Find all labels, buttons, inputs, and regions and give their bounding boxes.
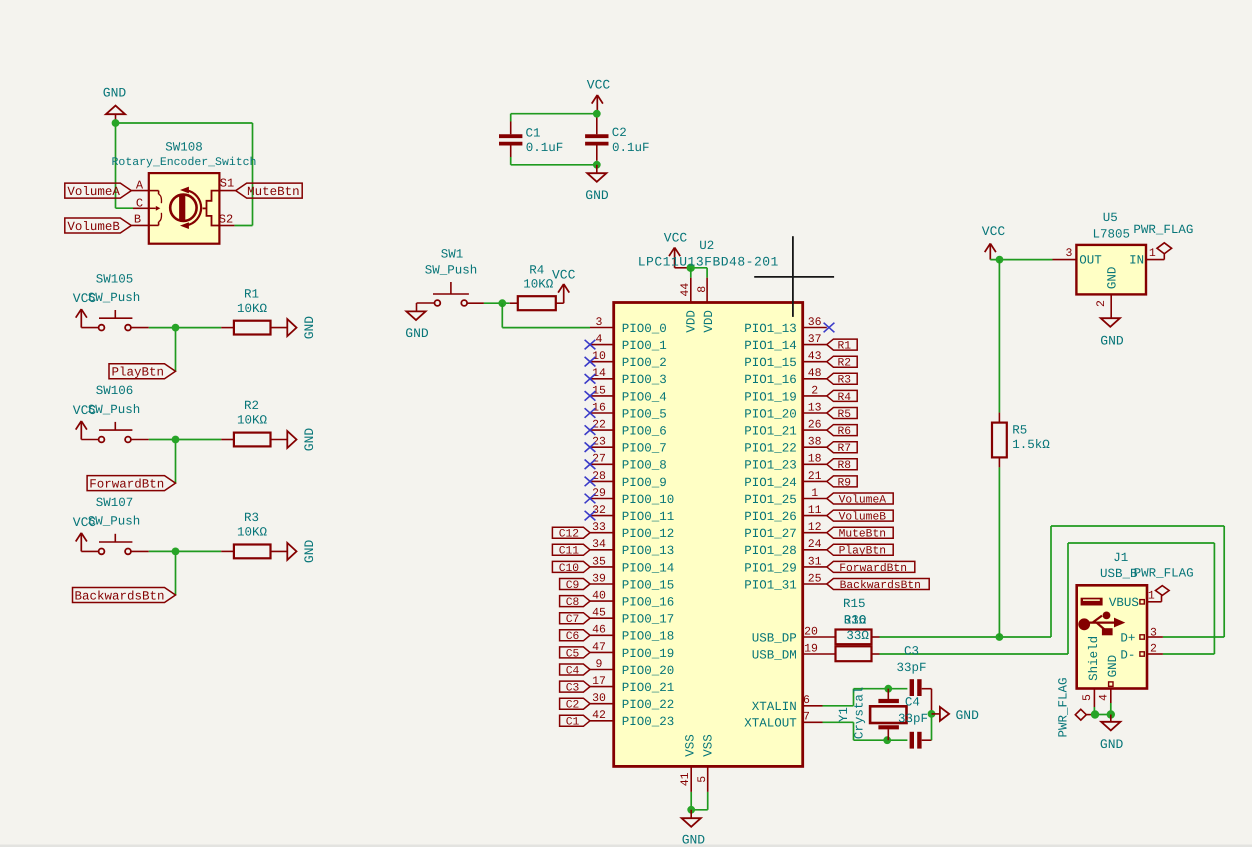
svg-text:U2: U2	[699, 239, 714, 253]
svg-text:PIO0_6: PIO0_6	[622, 425, 667, 439]
svg-text:C2: C2	[612, 126, 627, 140]
svg-text:44: 44	[679, 283, 692, 297]
svg-text:PIO1_29: PIO1_29	[744, 561, 797, 575]
svg-text:ForwardBtn: ForwardBtn	[89, 477, 164, 491]
svg-text:VCC: VCC	[552, 267, 576, 282]
svg-text:0.1uF: 0.1uF	[526, 141, 564, 155]
svg-text:C9: C9	[566, 580, 580, 592]
svg-text:10KΩ: 10KΩ	[237, 414, 268, 428]
svg-text:SW108: SW108	[165, 140, 203, 154]
svg-text:PIO1_13: PIO1_13	[744, 322, 797, 336]
svg-text:R5: R5	[1012, 423, 1027, 437]
svg-text:10: 10	[592, 350, 606, 363]
svg-text:10KΩ: 10KΩ	[237, 526, 268, 540]
svg-text:B: B	[134, 213, 141, 227]
svg-text:28: 28	[592, 470, 606, 483]
svg-text:VDD: VDD	[685, 310, 699, 333]
svg-text:PIO0_8: PIO0_8	[622, 459, 667, 473]
svg-text:ForwardBtn: ForwardBtn	[839, 562, 907, 575]
svg-text:R15: R15	[843, 597, 866, 611]
svg-text:31: 31	[808, 555, 822, 568]
svg-text:VSS: VSS	[701, 734, 715, 757]
svg-text:15: 15	[592, 384, 606, 397]
svg-text:Rotary_Encoder_Switch: Rotary_Encoder_Switch	[112, 156, 257, 169]
svg-text:C1: C1	[566, 717, 580, 729]
svg-text:USB_B: USB_B	[1100, 567, 1138, 581]
svg-text:R6: R6	[838, 426, 852, 438]
svg-text:R7: R7	[838, 443, 852, 455]
svg-text:USB_DP: USB_DP	[752, 631, 797, 645]
svg-text:PIO1_20: PIO1_20	[744, 407, 797, 421]
svg-text:GND: GND	[1106, 655, 1120, 678]
svg-text:PWR_FLAG: PWR_FLAG	[1056, 677, 1070, 737]
svg-text:39: 39	[592, 572, 606, 585]
svg-text:PIO1_27: PIO1_27	[744, 527, 797, 541]
svg-text:GND: GND	[302, 428, 317, 452]
svg-text:4: 4	[1098, 694, 1111, 701]
svg-text:GND: GND	[1106, 267, 1120, 290]
svg-text:PIO0_16: PIO0_16	[622, 596, 675, 610]
svg-text:11: 11	[808, 504, 822, 517]
svg-text:36: 36	[808, 316, 822, 329]
svg-text:PIO1_23: PIO1_23	[744, 459, 797, 473]
svg-text:C: C	[136, 196, 143, 210]
svg-text:PIO0_21: PIO0_21	[622, 681, 675, 695]
svg-text:PIO1_16: PIO1_16	[744, 373, 797, 387]
svg-text:VCC: VCC	[587, 78, 611, 93]
svg-text:35: 35	[592, 555, 606, 568]
svg-text:1.5kΩ: 1.5kΩ	[1012, 438, 1050, 452]
svg-text:0.1uF: 0.1uF	[612, 141, 650, 155]
svg-text:Shield: Shield	[1087, 636, 1101, 681]
svg-text:4: 4	[596, 333, 603, 346]
svg-text:20: 20	[804, 625, 818, 638]
svg-text:XTALOUT: XTALOUT	[744, 717, 797, 731]
svg-text:1: 1	[1148, 590, 1155, 603]
svg-text:SW_Push: SW_Push	[88, 515, 141, 529]
svg-text:32: 32	[592, 504, 606, 517]
svg-text:PIO0_15: PIO0_15	[622, 578, 675, 592]
svg-text:27: 27	[592, 453, 606, 466]
svg-text:6: 6	[803, 694, 810, 707]
svg-text:VCC: VCC	[664, 231, 688, 246]
svg-text:C12: C12	[559, 529, 579, 541]
svg-text:13: 13	[808, 401, 822, 414]
svg-text:PWR_FLAG: PWR_FLAG	[1134, 567, 1194, 581]
svg-text:R16: R16	[844, 613, 867, 627]
svg-text:42: 42	[592, 709, 606, 722]
svg-text:PIO0_17: PIO0_17	[622, 613, 675, 627]
svg-text:30: 30	[592, 692, 606, 705]
svg-text:VCC: VCC	[982, 224, 1006, 239]
svg-text:R3: R3	[838, 375, 852, 387]
svg-text:SW_Push: SW_Push	[88, 291, 141, 305]
svg-text:37: 37	[808, 333, 822, 346]
svg-text:IN: IN	[1129, 253, 1144, 267]
svg-text:16: 16	[592, 401, 606, 414]
svg-text:PIO1_15: PIO1_15	[744, 356, 797, 370]
svg-text:PIO0_11: PIO0_11	[622, 510, 675, 524]
svg-text:C1: C1	[525, 127, 540, 141]
svg-text:SW106: SW106	[96, 384, 134, 398]
svg-text:PIO1_14: PIO1_14	[744, 339, 797, 353]
svg-text:PIO0_10: PIO0_10	[622, 493, 675, 507]
svg-text:VolumeA: VolumeA	[839, 493, 887, 506]
svg-text:2: 2	[1095, 300, 1108, 307]
svg-text:LPC11U13FBD48-201: LPC11U13FBD48-201	[638, 255, 779, 270]
svg-text:PIO1_22: PIO1_22	[744, 442, 797, 456]
svg-text:S2: S2	[219, 212, 233, 226]
svg-text:12: 12	[808, 521, 822, 534]
svg-text:VolumeB: VolumeB	[67, 220, 120, 234]
svg-text:2: 2	[1150, 643, 1157, 656]
svg-text:R4: R4	[529, 263, 544, 277]
svg-text:PIO0_3: PIO0_3	[622, 373, 667, 387]
svg-text:3: 3	[596, 316, 603, 329]
svg-text:C3: C3	[566, 683, 580, 695]
svg-text:PWR_FLAG: PWR_FLAG	[1133, 223, 1193, 237]
svg-text:MuteBtn: MuteBtn	[247, 185, 300, 199]
svg-text:21: 21	[808, 470, 822, 483]
svg-text:C10: C10	[559, 563, 580, 575]
svg-text:PIO1_24: PIO1_24	[744, 476, 797, 490]
svg-text:C2: C2	[566, 700, 580, 712]
svg-text:R2: R2	[838, 358, 852, 370]
svg-text:22: 22	[592, 419, 606, 432]
svg-text:GND: GND	[405, 326, 429, 341]
svg-text:40: 40	[592, 590, 606, 603]
svg-text:10KΩ: 10KΩ	[237, 302, 268, 316]
svg-text:33pF: 33pF	[896, 661, 926, 675]
svg-text:33pF: 33pF	[898, 712, 928, 726]
svg-text:PlayBtn: PlayBtn	[112, 366, 165, 380]
svg-text:PIO0_4: PIO0_4	[622, 390, 667, 404]
svg-text:GND: GND	[1100, 334, 1124, 349]
svg-text:PIO1_31: PIO1_31	[744, 578, 797, 592]
svg-text:PIO0_9: PIO0_9	[622, 476, 667, 490]
svg-text:R9: R9	[838, 477, 852, 489]
svg-text:R3: R3	[244, 511, 259, 525]
svg-text:GND: GND	[955, 708, 979, 723]
svg-text:19: 19	[804, 642, 818, 655]
svg-text:PIO0_0: PIO0_0	[622, 322, 667, 336]
svg-text:C7: C7	[566, 614, 580, 626]
svg-text:GND: GND	[1100, 737, 1124, 752]
svg-text:D-: D-	[1120, 648, 1135, 662]
svg-text:C3: C3	[904, 644, 919, 658]
svg-text:C6: C6	[566, 631, 580, 643]
svg-text:PIO0_2: PIO0_2	[622, 356, 667, 370]
svg-text:47: 47	[592, 641, 606, 654]
svg-text:PIO0_23: PIO0_23	[622, 715, 675, 729]
svg-text:SW_Push: SW_Push	[88, 403, 141, 417]
svg-text:24: 24	[808, 538, 822, 551]
svg-text:VBUS: VBUS	[1109, 596, 1139, 610]
svg-text:SW1: SW1	[441, 247, 464, 261]
svg-text:23: 23	[592, 436, 606, 449]
svg-text:29: 29	[592, 487, 606, 500]
svg-text:J1: J1	[1113, 551, 1128, 565]
svg-text:9: 9	[596, 658, 603, 671]
svg-text:PIO0_18: PIO0_18	[622, 630, 675, 644]
svg-text:10KΩ: 10KΩ	[523, 277, 554, 291]
svg-text:5: 5	[696, 776, 709, 783]
svg-text:PIO0_1: PIO0_1	[622, 339, 667, 353]
svg-text:PIO0_12: PIO0_12	[622, 527, 675, 541]
svg-text:3: 3	[1066, 247, 1073, 260]
svg-text:PIO0_5: PIO0_5	[622, 407, 667, 421]
svg-text:C8: C8	[566, 597, 580, 609]
svg-text:PIO0_7: PIO0_7	[622, 442, 667, 456]
svg-text:PIO1_19: PIO1_19	[744, 390, 797, 404]
svg-text:5: 5	[1081, 694, 1094, 701]
svg-text:PIO1_21: PIO1_21	[744, 425, 797, 439]
svg-text:GND: GND	[302, 540, 317, 564]
svg-text:25: 25	[808, 572, 822, 585]
svg-text:VolumeB: VolumeB	[839, 511, 887, 524]
svg-text:PIO0_20: PIO0_20	[622, 664, 675, 678]
svg-text:38: 38	[808, 436, 822, 449]
svg-text:R1: R1	[838, 341, 852, 353]
svg-text:SW107: SW107	[96, 496, 134, 510]
svg-text:14: 14	[592, 367, 606, 380]
svg-text:34: 34	[592, 538, 606, 551]
svg-text:3: 3	[1150, 626, 1157, 639]
svg-text:41: 41	[679, 772, 692, 786]
svg-text:SW105: SW105	[96, 272, 134, 286]
svg-text:R8: R8	[838, 460, 852, 472]
svg-text:48: 48	[808, 367, 822, 380]
svg-text:C4: C4	[566, 665, 580, 677]
svg-text:33: 33	[592, 521, 606, 534]
svg-text:PIO1_28: PIO1_28	[744, 544, 797, 558]
svg-text:C4: C4	[905, 696, 920, 710]
svg-text:OUT: OUT	[1079, 253, 1102, 267]
svg-text:GND: GND	[682, 832, 706, 847]
svg-text:U5: U5	[1103, 211, 1118, 225]
svg-text:R5: R5	[838, 409, 852, 421]
svg-text:MuteBtn: MuteBtn	[839, 529, 886, 541]
svg-text:26: 26	[808, 419, 822, 432]
svg-text:1: 1	[1149, 247, 1156, 260]
svg-text:BackwardsBtn: BackwardsBtn	[74, 589, 164, 603]
svg-text:D+: D+	[1120, 631, 1135, 645]
svg-text:A: A	[136, 179, 144, 193]
svg-text:43: 43	[808, 350, 822, 363]
svg-text:45: 45	[592, 607, 606, 620]
svg-text:C11: C11	[559, 546, 580, 558]
svg-text:R2: R2	[244, 399, 259, 413]
svg-text:GND: GND	[103, 86, 127, 101]
svg-text:PIO1_25: PIO1_25	[744, 493, 797, 507]
svg-text:BackwardsBtn: BackwardsBtn	[840, 579, 921, 592]
svg-text:8: 8	[696, 286, 709, 293]
svg-text:PIO0_14: PIO0_14	[622, 561, 675, 575]
svg-text:USB_DM: USB_DM	[752, 648, 797, 662]
svg-text:S1: S1	[220, 176, 234, 190]
svg-text:17: 17	[592, 675, 606, 688]
svg-text:1: 1	[811, 487, 818, 500]
svg-text:18: 18	[808, 453, 822, 466]
svg-text:R4: R4	[838, 392, 852, 404]
svg-text:L7805: L7805	[1092, 227, 1130, 241]
svg-text:PIO0_22: PIO0_22	[622, 698, 675, 712]
svg-text:PIO0_13: PIO0_13	[622, 544, 675, 558]
svg-text:VSS: VSS	[683, 734, 697, 757]
svg-text:R1: R1	[244, 287, 259, 301]
svg-text:GND: GND	[585, 188, 609, 203]
svg-text:7: 7	[803, 711, 810, 724]
svg-text:GND: GND	[302, 316, 317, 340]
svg-text:Crystal: Crystal	[853, 687, 867, 740]
svg-text:XTALIN: XTALIN	[752, 700, 797, 714]
svg-text:46: 46	[592, 624, 606, 637]
svg-text:SW_Push: SW_Push	[425, 263, 478, 277]
svg-text:PlayBtn: PlayBtn	[839, 545, 886, 558]
svg-text:PIO0_19: PIO0_19	[622, 647, 675, 661]
svg-text:PIO1_26: PIO1_26	[744, 510, 797, 524]
svg-text:VolumeA: VolumeA	[67, 185, 120, 199]
svg-text:VDD: VDD	[702, 310, 716, 333]
svg-text:C5: C5	[566, 648, 580, 660]
svg-text:2: 2	[811, 384, 818, 397]
svg-text:Y1: Y1	[837, 707, 851, 722]
svg-text:33Ω: 33Ω	[846, 629, 869, 643]
